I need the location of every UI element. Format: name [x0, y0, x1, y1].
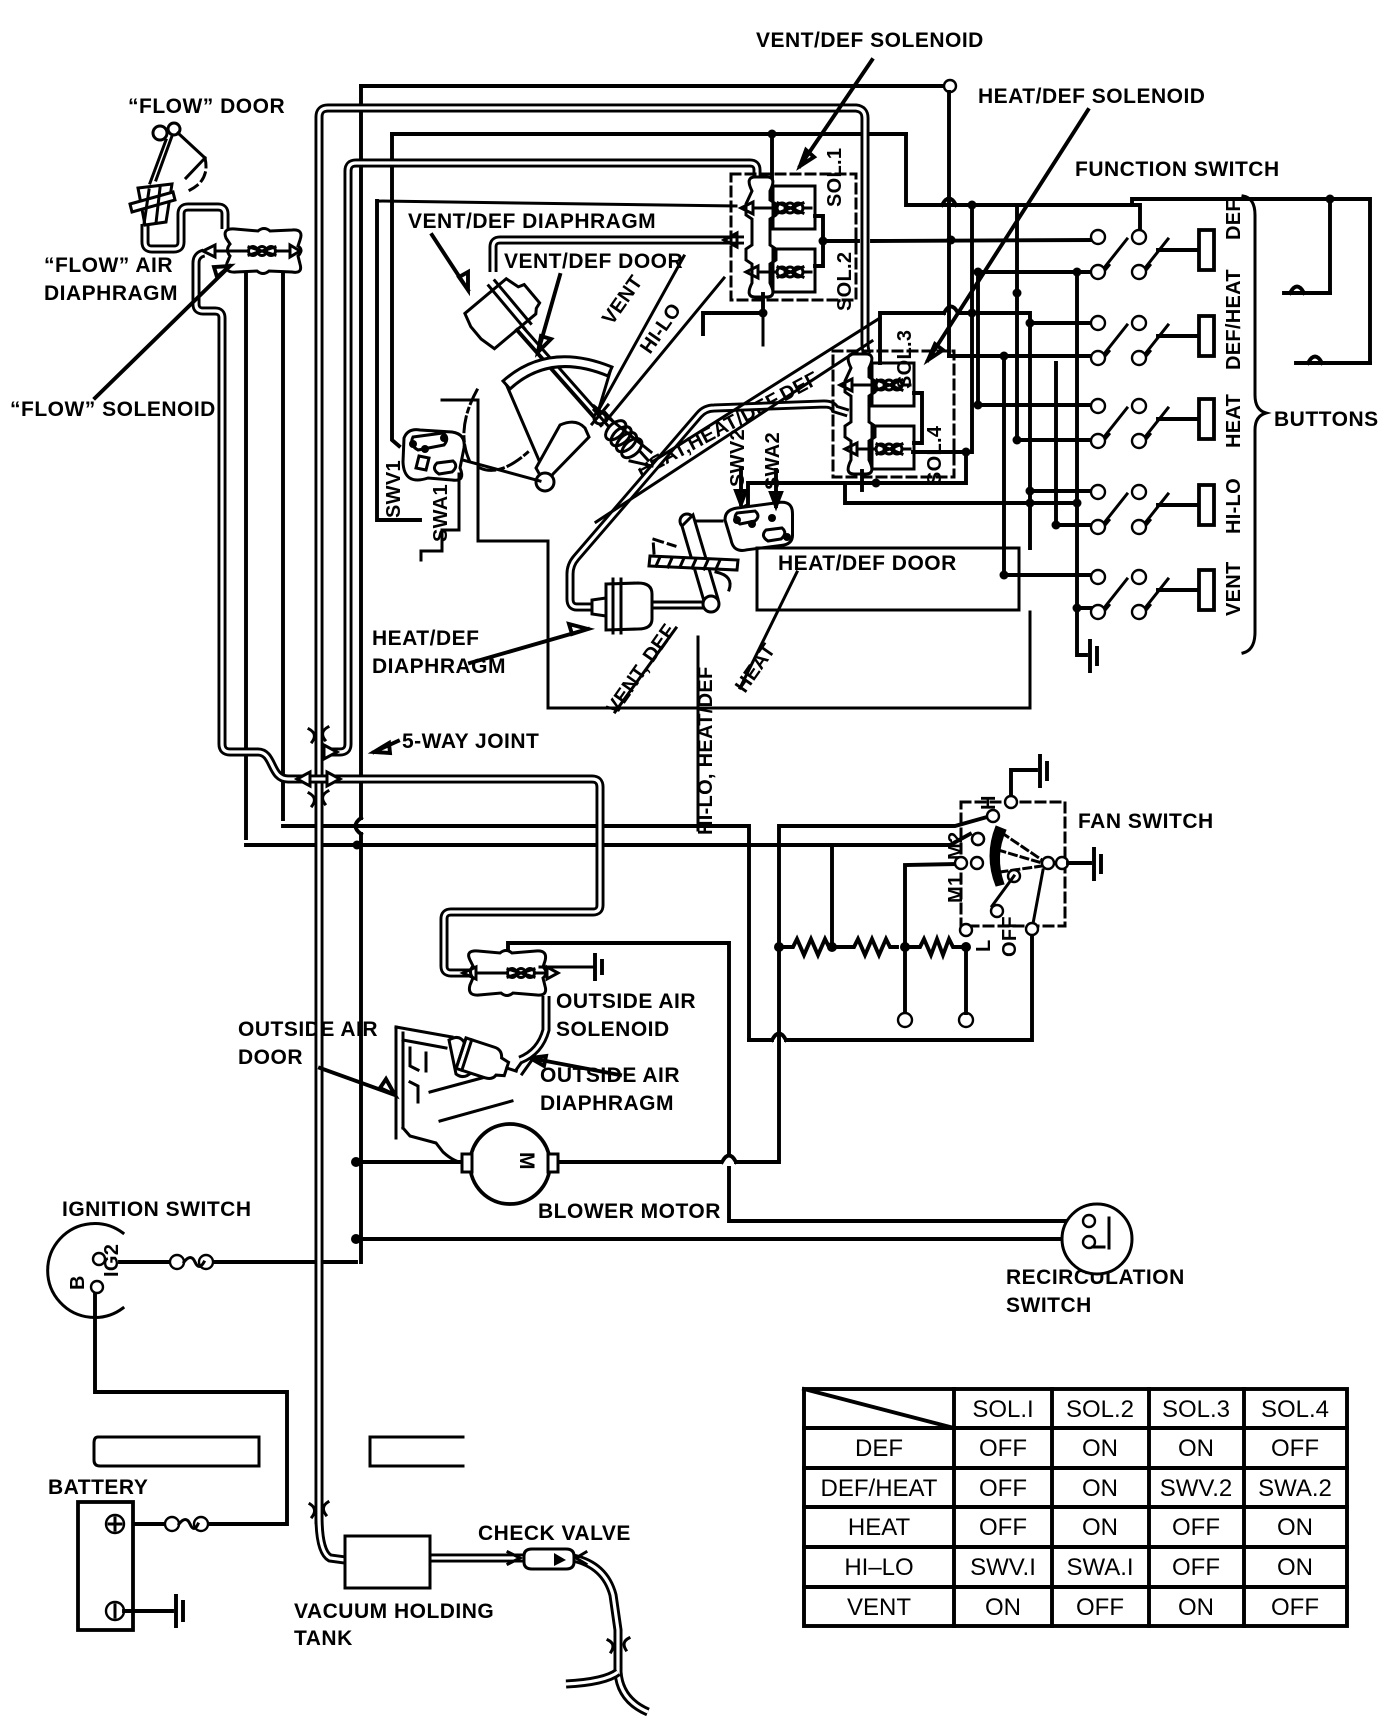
- svg-text:DEF: DEF: [855, 1435, 903, 1462]
- svg-text:DEF/HEAT: DEF/HEAT: [1223, 269, 1245, 370]
- spring: [593, 403, 658, 471]
- svg-text:OUTSIDE AIR: OUTSIDE AIR: [556, 990, 696, 1013]
- outside air solenoid capsule: [463, 951, 592, 996]
- svg-text:B: B: [67, 1275, 89, 1290]
- wire hop on y1040 over x779: [772, 1034, 786, 1041]
- svg-text:DIAPHRAGM: DIAPHRAGM: [44, 282, 178, 305]
- wire hose I: [430, 1554, 530, 1563]
- svg-text:HEAT/DEF SOLENOID: HEAT/DEF SOLENOID: [978, 85, 1205, 108]
- outside air door assembly: [396, 1027, 512, 1163]
- svg-text:DOOR: DOOR: [238, 1046, 303, 1069]
- svg-text:OFF: OFF: [1271, 1594, 1319, 1621]
- fuse IG2: [170, 1255, 213, 1269]
- wire y845 from x246: [246, 273, 832, 947]
- wire hose J: [573, 1558, 648, 1712]
- wire outer frame left long vertical: [359, 86, 363, 1262]
- label arrow vent/def diaphragm: [432, 235, 468, 290]
- label arrow outside air door: [320, 1068, 395, 1095]
- svg-text:DIAPHRAGM: DIAPHRAGM: [540, 1092, 674, 1115]
- bus verticals: [976, 272, 980, 405]
- svg-text:DEF: DEF: [1223, 199, 1245, 240]
- switch contact rows: [1091, 230, 1214, 619]
- wire hose C: [493, 240, 744, 272]
- svg-text:VENT/DEF DIAPHRAGM: VENT/DEF DIAPHRAGM: [408, 210, 656, 233]
- svg-text:OFF: OFF: [1076, 1594, 1124, 1621]
- diagonal line heat,heat/def,def: [596, 318, 880, 522]
- dashed rays: [1002, 833, 1042, 860]
- wire SOL2 bottom stub: [762, 313, 765, 345]
- svg-text:ON: ON: [1082, 1435, 1118, 1462]
- wire long y200 to SOL1 port: [377, 201, 736, 206]
- wire right waves: [1284, 293, 1370, 363]
- svg-text:HI–LO: HI–LO: [844, 1554, 913, 1581]
- buttons brace: [1243, 196, 1266, 653]
- solenoid SOL.3 / SOL.4: [833, 351, 954, 490]
- wire M feed vertical x779: [779, 817, 987, 1159]
- svg-text:ON: ON: [1277, 1514, 1313, 1541]
- svg-text:HEAT: HEAT: [848, 1514, 911, 1541]
- svg-text:ON: ON: [1277, 1554, 1313, 1581]
- resistors: [784, 939, 963, 955]
- contact L: [960, 924, 972, 936]
- fuse battery: [165, 1517, 208, 1531]
- svg-text:L: L: [973, 939, 995, 952]
- function switch contact matrix: [949, 205, 1097, 671]
- trunk to ground: [1077, 272, 1086, 655]
- svg-text:BUTTONS: BUTTONS: [1274, 408, 1379, 431]
- wire SWV2 disc to matrix y483: [735, 452, 966, 512]
- svg-text:SWA.I: SWA.I: [1066, 1554, 1133, 1581]
- wire SOL1 coil feed from frame B: [770, 134, 774, 186]
- svg-text:VACUUM HOLDING: VACUUM HOLDING: [294, 1600, 494, 1623]
- contact OFF: [1026, 923, 1038, 935]
- dash-dot swing arc: [464, 390, 528, 470]
- wire y503 to trunk: [845, 483, 1077, 503]
- wire M left: [356, 1160, 466, 1164]
- vent/def door sector: [433, 357, 612, 491]
- svg-text:SOL.2: SOL.2: [834, 252, 856, 311]
- recirculation switch: [1062, 1204, 1132, 1274]
- staircase frame near SWV1: [421, 400, 1030, 708]
- wire SOL1/2 center tap to row u1: [823, 240, 1092, 241]
- svg-text:FAN SWITCH: FAN SWITCH: [1078, 810, 1214, 833]
- svg-text:“FLOW” DOOR: “FLOW” DOOR: [128, 95, 285, 118]
- wire hose F: [196, 253, 600, 973]
- svg-text:ON: ON: [1178, 1594, 1214, 1621]
- svg-text:ON: ON: [1082, 1514, 1118, 1541]
- electrical wiring: [356, 80, 1141, 1262]
- svg-text:BLOWER MOTOR: BLOWER MOTOR: [538, 1200, 721, 1223]
- link to SWV1: [433, 452, 540, 481]
- battery: [78, 1502, 183, 1630]
- contact M2: [955, 857, 967, 869]
- svg-text:SOL.4: SOL.4: [1261, 1396, 1329, 1423]
- svg-text:FUNCTION SWITCH: FUNCTION SWITCH: [1075, 158, 1280, 181]
- vent/def diaphragm rod: [517, 330, 601, 425]
- svg-text:M: M: [515, 1152, 538, 1170]
- svg-text:OFF: OFF: [999, 916, 1021, 957]
- wire blower top wire from outside air solenoid to recirc: [508, 943, 729, 1154]
- svg-text:VENT/DEF SOLENOID: VENT/DEF SOLENOID: [756, 29, 984, 52]
- ignition switch: [48, 1223, 123, 1317]
- svg-text:SWA.2: SWA.2: [1258, 1475, 1332, 1502]
- 5-way joint label arrow: [374, 741, 398, 753]
- svg-text:ON: ON: [1082, 1475, 1118, 1502]
- wire frame B left down to SWV1: [392, 134, 399, 446]
- ground outside air solenoid: [595, 955, 602, 979]
- wire SOL.2 bottom outlet: [761, 294, 765, 313]
- contact M1 upper small: [972, 833, 984, 845]
- svg-text:“FLOW” SOLENOID: “FLOW” SOLENOID: [10, 398, 216, 421]
- wire B to battery fuse: [95, 1290, 287, 1524]
- svg-text:SWV2: SWV2: [727, 429, 749, 487]
- ground top of fan switch: [1011, 756, 1047, 802]
- pivot contacts: [1042, 857, 1054, 869]
- SWV2 SWA2 label arrows: [736, 468, 746, 504]
- SWV2/SWA2 rotary switch: [723, 495, 800, 557]
- flow door: [150, 123, 206, 190]
- svg-text:HI-LO: HI-LO: [1223, 478, 1245, 534]
- svg-text:VENT: VENT: [1223, 561, 1245, 616]
- node open terminals below resistors: [898, 1013, 912, 1027]
- diagonal leader VENT / HI-LO: [597, 256, 724, 421]
- svg-text:OFF: OFF: [1271, 1435, 1319, 1462]
- SWV1 rotary switch: [403, 430, 464, 481]
- door lever: [536, 422, 589, 480]
- rotated labels: [67, 148, 1245, 1290]
- svg-text:ON: ON: [1178, 1435, 1214, 1462]
- svg-text:5-WAY JOINT: 5-WAY JOINT: [402, 730, 539, 753]
- sector left radius: [507, 386, 544, 472]
- wire hop over y826: [356, 818, 362, 834]
- svg-text:OFF: OFF: [979, 1435, 1027, 1462]
- solenoid SOL.1 / SOL.2: [731, 174, 856, 313]
- svg-text:SOL.2: SOL.2: [1066, 1396, 1134, 1423]
- wire OFF line y1040: [749, 934, 1032, 1040]
- wire recirc lower: [356, 1237, 1086, 1241]
- outside air diaphragm: [456, 1038, 521, 1086]
- wire hose D: [570, 404, 848, 607]
- heat/def door box: [757, 548, 1019, 610]
- junction dots: [1013, 289, 1022, 298]
- svg-text:VENT/DEF DOOR: VENT/DEF DOOR: [504, 250, 683, 273]
- panel slot right: [370, 1437, 463, 1466]
- svg-text:SWITCH: SWITCH: [1006, 1294, 1092, 1317]
- table solenoid states: [804, 1389, 1347, 1626]
- svg-text:TANK: TANK: [294, 1627, 353, 1650]
- svg-text:HEAT: HEAT: [1223, 394, 1245, 448]
- fan switch: [784, 756, 1101, 955]
- svg-text:SWV1: SWV1: [383, 460, 405, 518]
- vacuum holding tank: [345, 1536, 430, 1588]
- hose stub to outside air diaphragm: [520, 996, 546, 1060]
- svg-text:SOL.1: SOL.1: [824, 148, 846, 207]
- flow solenoid capsule: [203, 229, 301, 274]
- label arrow heat/def solenoid: [928, 110, 1088, 360]
- label arrow heat/def diaphragm: [470, 624, 588, 663]
- svg-text:SWV.2: SWV.2: [1160, 1475, 1232, 1502]
- svg-text:SOL.I: SOL.I: [972, 1396, 1033, 1423]
- svg-text:BATTERY: BATTERY: [48, 1476, 148, 1499]
- svg-text:IGNITION SWITCH: IGNITION SWITCH: [62, 1198, 252, 1221]
- wire hose E: [145, 207, 225, 249]
- svg-text:SOL.3: SOL.3: [1162, 1396, 1230, 1423]
- leader lines for pipe labels: [615, 628, 676, 712]
- svg-text:OUTSIDE AIR: OUTSIDE AIR: [540, 1064, 680, 1087]
- sector right side / rod guide: [598, 372, 610, 412]
- contact H: [987, 810, 999, 822]
- label arrow vent/def solenoid: [800, 60, 872, 166]
- wire x377 down and jog: [377, 201, 420, 520]
- wire outer frame top: [361, 84, 944, 88]
- heat/def door mechanism: [649, 514, 738, 612]
- svg-text:M1: M1: [945, 875, 967, 903]
- svg-text:SWV.I: SWV.I: [970, 1554, 1036, 1581]
- svg-text:OFF: OFF: [1172, 1554, 1220, 1581]
- svg-text:OFF: OFF: [979, 1514, 1027, 1541]
- wire y199 right rail: [1132, 199, 1370, 363]
- flow air diaphragm: [130, 184, 175, 225]
- wire resistor row junctions: [774, 942, 784, 952]
- hose break marks near tank: [310, 1502, 328, 1517]
- blade lower diagonals: [992, 870, 1043, 929]
- check valve: [508, 1549, 586, 1569]
- wiper blade crescent: [990, 826, 1006, 886]
- hose C end arrow at SOL1: [724, 233, 737, 247]
- row feeds: [978, 270, 1092, 274]
- svg-text:OFF: OFF: [979, 1475, 1027, 1502]
- blower motor: [462, 1124, 558, 1204]
- node open terminal top right: [944, 80, 956, 92]
- hose break marks on check valve outlet: [608, 1638, 629, 1652]
- svg-text:HEAT/DEF: HEAT/DEF: [372, 627, 479, 650]
- vent/def diaphragm: [458, 268, 546, 355]
- heat/def diaphragm: [592, 579, 702, 633]
- wire M right to fan feed: [558, 1160, 779, 1164]
- wire fan switch feed y826 from x283: [283, 254, 749, 1040]
- wire hose H: [319, 1516, 345, 1560]
- svg-text:DEF/HEAT: DEF/HEAT: [821, 1475, 938, 1502]
- wire SOL4 coil right up bus972: [913, 205, 972, 452]
- svg-text:OFF: OFF: [1172, 1514, 1220, 1541]
- svg-text:“FLOW” AIR: “FLOW” AIR: [44, 254, 173, 277]
- wire hop M wire over x729: [722, 1156, 736, 1163]
- panel slot left: [94, 1437, 259, 1466]
- svg-text:SOLENOID: SOLENOID: [556, 1018, 670, 1041]
- wire SOL2 outlet to fan M1 feed: [703, 313, 763, 334]
- wire frame B right down to matrix top rail: [906, 134, 1140, 230]
- wire frame B top: [392, 132, 906, 136]
- label arrow vent/def door: [538, 275, 560, 352]
- wire IG2 to junction: [120, 1260, 356, 1264]
- svg-text:VENT: VENT: [847, 1594, 911, 1621]
- wire M1 feed: [905, 864, 956, 1014]
- svg-text:OUTSIDE AIR: OUTSIDE AIR: [238, 1018, 378, 1041]
- wire hose K: [566, 1672, 618, 1684]
- svg-text:CHECK VALVE: CHECK VALVE: [478, 1522, 631, 1545]
- label arrow outside air diaphragm: [530, 1056, 620, 1075]
- wire terminal bus x949: [947, 92, 951, 356]
- label arrow flow solenoid: [95, 266, 230, 398]
- wire hose A: [319, 108, 868, 1524]
- 5-way joint connector nipples: [297, 727, 340, 806]
- ground right of fan switch: [1068, 849, 1101, 879]
- wire hose B: [331, 163, 757, 752]
- wire SOL3 coil feed y313: [880, 313, 1030, 363]
- svg-text:HEAT/DEF DOOR: HEAT/DEF DOOR: [778, 552, 957, 575]
- svg-text:ON: ON: [985, 1594, 1021, 1621]
- sector outer arc (double): [503, 357, 612, 389]
